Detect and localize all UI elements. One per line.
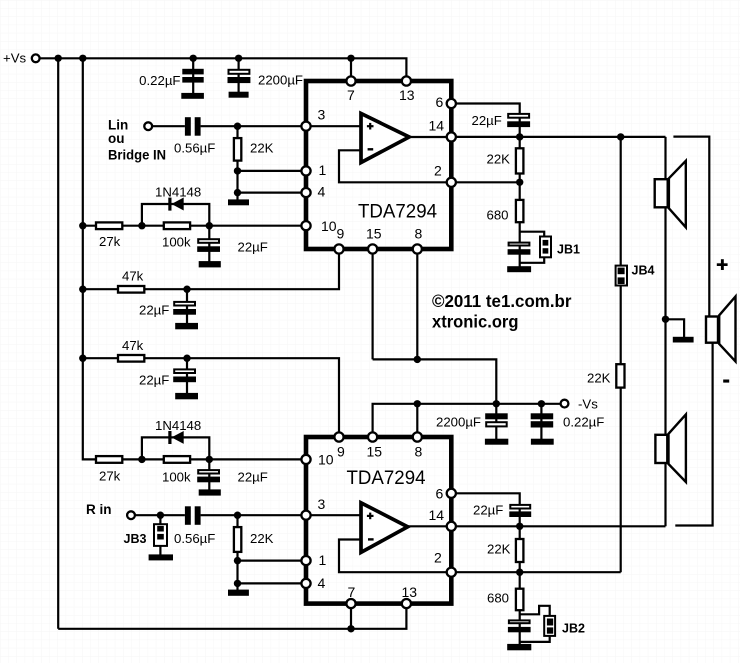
pin 10 U1 (301, 221, 310, 230)
terminal R in (127, 511, 135, 519)
node A speaker gnd (662, 316, 669, 323)
resistor R8 22K right rail (616, 364, 624, 387)
pin 13 U1 (402, 76, 411, 85)
svg-text:13: 13 (399, 87, 415, 103)
resistor R3 100k (164, 222, 190, 229)
wire bottom pin 14 output row (451, 525, 665, 527)
node C1 top (190, 55, 197, 62)
node pin14/right rail (617, 133, 624, 140)
capacitor C8 (508, 243, 531, 255)
ground under C2 (229, 92, 249, 98)
svg-text:22µF: 22µF (139, 373, 169, 388)
wire U1 feedback to pin 2 (339, 150, 451, 182)
svg-text:0.56µF: 0.56µF (174, 531, 215, 546)
svg-text:100k: 100k (162, 235, 191, 250)
svg-text:xtronic.org: xtronic.org (432, 312, 519, 332)
svg-text:3: 3 (318, 496, 326, 512)
ground at node A (673, 337, 694, 343)
capacitor C3 0.56uF (185, 117, 201, 136)
svg-text:14: 14 (429, 507, 445, 523)
wire JB2 bottom branch (520, 636, 550, 642)
ground under C5 (175, 323, 198, 329)
IC U2 TDA7294 box (306, 437, 451, 604)
ground under JB3 (149, 554, 173, 560)
svg-text:2200µF: 2200µF (436, 415, 481, 430)
wire node to bottom pin 1 (238, 559, 307, 561)
wire pin 3 to op-amp U1 (306, 125, 361, 127)
svg-text:22K: 22K (250, 141, 274, 156)
svg-text:0.22µF: 0.22µF (563, 415, 604, 430)
node railB 47k1 (79, 286, 86, 293)
wire stem of C10 (540, 404, 542, 442)
svg-text:1N4148: 1N4148 (155, 418, 201, 433)
resistor R5 47k (118, 355, 144, 362)
svg-text:680: 680 (487, 591, 509, 606)
speaker LS1 (655, 161, 686, 228)
resistor R7b 680 bottom (516, 589, 524, 611)
node 47k1/C5 (183, 286, 190, 293)
node 100k/C4 (206, 222, 213, 229)
wire 27k row to pin 10 (83, 225, 306, 227)
wire bridge hop upper segment to LS2 (673, 137, 709, 316)
wire bottom diode D2 branch (142, 437, 209, 459)
pin 3 U1 (301, 122, 310, 131)
wire U1 output to pin 14 (409, 136, 451, 138)
pin 1 U2 (301, 556, 310, 565)
svg-text:9: 9 (337, 444, 345, 460)
terminal +Vs (32, 54, 40, 62)
resistor R6 22K (516, 148, 524, 173)
node +Vs rail B (79, 55, 86, 62)
svg-text:22µF: 22µF (139, 303, 169, 318)
svg-text:2: 2 (434, 550, 442, 566)
wire U2 feedback to pin 2 (339, 540, 451, 573)
node input/R1 (234, 123, 241, 130)
svg-text:22µF: 22µF (472, 113, 502, 128)
wire stem of C4 (208, 226, 210, 264)
wire stem of C2 (238, 58, 240, 95)
ground under C6 (175, 393, 198, 399)
node input/R1b (234, 512, 241, 519)
IC U1 TDA7294 box (306, 81, 451, 249)
wire pin 6 to C7 (451, 104, 519, 138)
svg-text:4: 4 (318, 184, 326, 200)
node pin7 drop (347, 55, 354, 62)
svg-text:6: 6 (436, 94, 444, 110)
ground under C1 (181, 93, 204, 99)
svg-text:27k: 27k (99, 469, 121, 484)
capacitor C8b (508, 620, 531, 632)
U1 pin circles (301, 76, 456, 608)
resistor R6b 22K bottom (516, 539, 524, 562)
svg-text:R in: R in (86, 502, 112, 517)
svg-text:1N4148: 1N4148 (155, 185, 201, 200)
wire R input to C3b (135, 514, 185, 516)
wire bottom pin 8 stub to -Vs row (416, 404, 418, 437)
capacitor C3b 0.56uF (185, 506, 201, 525)
wire node to pin 1 (238, 170, 307, 172)
pin 13 U2 (402, 599, 411, 608)
svg-text:JB1: JB1 (557, 243, 580, 257)
svg-text:3: 3 (318, 107, 326, 123)
node pin4b gnd (234, 580, 241, 587)
pin 8 U1 (413, 244, 422, 253)
svg-text:4: 4 (318, 575, 326, 591)
jumper JB1 (540, 237, 551, 258)
speaker LS2 plus sign (717, 259, 728, 270)
svg-text:8: 8 (415, 444, 423, 460)
wire JB3 stem (159, 515, 161, 556)
pin 6 U1 (447, 99, 456, 108)
pin 2 U1 (447, 178, 456, 187)
wire JB1 top branch (520, 232, 545, 237)
pin 15 U2 (368, 432, 377, 441)
svg-text:7: 7 (347, 87, 355, 103)
svg-text:15: 15 (366, 226, 382, 242)
node bottom rail pin7 (347, 625, 354, 632)
wire C3b to bottom pin 3 (201, 514, 306, 516)
pin 8 U2 (413, 432, 422, 441)
svg-text:-Vs: -Vs (578, 397, 598, 412)
svg-text:2200µF: 2200µF (258, 73, 303, 88)
speaker LS2 minus sign (723, 380, 729, 383)
svg-text:Bridge IN: Bridge IN (108, 148, 166, 163)
ground under C4 (199, 261, 221, 267)
wire node A ground stub (666, 319, 685, 337)
terminal L in (144, 122, 152, 130)
speaker LS3 (655, 414, 686, 482)
svg-text:2: 2 (434, 163, 442, 179)
op-amp U2 (361, 503, 408, 553)
capacitor C10 0.22uF (531, 413, 554, 427)
wire top pin 15 down to -Vs (372, 249, 374, 359)
node pin14/C7 (516, 133, 523, 140)
pin 1 U1 (301, 166, 310, 175)
wire node to bottom pin 4 (238, 582, 307, 584)
capacitor C9 2200uF (485, 413, 508, 426)
pin 7 U1 (346, 76, 355, 85)
svg-text:10: 10 (318, 452, 334, 468)
svg-text:1: 1 (319, 552, 327, 568)
resistor R1b 22K bottom (234, 527, 241, 552)
jumper JB3 (154, 524, 167, 546)
svg-text:0.22µF: 0.22µF (139, 73, 180, 88)
pin 10 U2 (301, 455, 310, 464)
ground under C8 (507, 266, 531, 272)
resistor R1 22K (234, 138, 241, 161)
wire left rail B with corner to bottom 27k row (83, 58, 306, 459)
node pin8 -Vs upper (414, 356, 421, 363)
wire pin 14 output row (451, 136, 665, 138)
wire pin 2 row to 22K/680 node (451, 181, 519, 183)
svg-text:+Vs: +Vs (3, 51, 26, 66)
jumper JB2 (544, 616, 555, 636)
pin 15 U1 (368, 244, 377, 253)
wire 22K R1 chain down to ground (236, 126, 238, 201)
svg-text:TDA7294: TDA7294 (347, 468, 426, 489)
capacitor C4b 22uF (197, 470, 220, 482)
svg-text:ou: ou (108, 131, 125, 146)
pin 6 U2 (447, 489, 456, 498)
svg-text:22K: 22K (487, 542, 511, 557)
wire bottom pin 2 row to right rail (451, 571, 620, 573)
node 100kb/C4b (206, 456, 213, 463)
wire LS2 bottom segment (675, 344, 712, 526)
svg-text:47k: 47k (122, 338, 144, 353)
capacitor C5 22uF (173, 302, 196, 315)
svg-text:6: 6 (436, 486, 444, 502)
resistor R4 47k (118, 286, 144, 293)
node 27k/100k (138, 222, 145, 229)
pin 3 U2 (301, 511, 310, 520)
svg-text:JB2: JB2 (562, 622, 585, 636)
svg-text:1: 1 (319, 162, 327, 178)
node JB3 (157, 512, 164, 519)
wire bottom 22K chain to ground (236, 515, 238, 591)
wire stem of C1 (192, 58, 194, 95)
svg-text:100k: 100k (162, 470, 191, 485)
ground under R1b chain (228, 590, 249, 596)
wire 47k row 1 to pin 9 (83, 249, 339, 289)
jumper JB4 (616, 266, 627, 286)
node pin4 gnd (234, 189, 241, 196)
wire stem of bottom C4b (208, 459, 210, 492)
wire +Vs top rail to pin 13 (40, 58, 407, 81)
wire node to pin 4 (238, 192, 307, 194)
wire -Vs row to terminal (373, 404, 561, 437)
ground under C8b (507, 644, 531, 650)
wire bottom IC pin 7 stub (350, 604, 352, 629)
diode D2 1N4148 (168, 431, 183, 444)
ground under C10 (531, 439, 554, 445)
svg-text:22K: 22K (487, 152, 511, 167)
pin 14 U2 (447, 522, 456, 531)
pin 9 U2 (334, 432, 343, 441)
svg-text:7: 7 (348, 584, 356, 600)
node pin8b -Vs row (414, 400, 421, 407)
capacitor C2 2200uF (228, 70, 251, 83)
capacitor C7b 22uF (509, 505, 531, 517)
wire 22K/680 column to C8 ground (519, 137, 521, 268)
node +Vs rail A (55, 55, 62, 62)
ground under C4b (199, 489, 221, 495)
wire JB1 bottom branch (520, 258, 545, 263)
node pin2b/680b (516, 569, 523, 576)
node C10 -Vs row (538, 400, 545, 407)
speaker LS2 (bridge) (706, 297, 736, 362)
node C2 top (235, 55, 242, 62)
wire stem of C6 (186, 358, 188, 396)
wire right rail through JB4 and 22K R8 (620, 137, 622, 572)
terminal -Vs (561, 400, 569, 408)
wire bottom 22K/680 column (519, 526, 521, 646)
svg-text:0.56µF: 0.56µF (174, 141, 215, 156)
node pin14b/C7b (516, 523, 523, 530)
svg-text:27k: 27k (99, 234, 121, 249)
svg-text:10: 10 (321, 218, 337, 234)
wire left rail A down to bottom (57, 58, 59, 629)
ground under C9 (485, 439, 508, 445)
diode D1 1N4148 (168, 198, 183, 211)
pin 4 U1 (301, 188, 310, 197)
node railB 27k (79, 222, 86, 229)
svg-text:13: 13 (402, 584, 418, 600)
wire diode D1 branch (142, 204, 209, 226)
svg-text:15: 15 (367, 444, 383, 460)
wire U2 output to pin 14 (408, 525, 452, 527)
svg-text:9: 9 (337, 226, 345, 242)
node 47k2/C6 (183, 355, 190, 362)
node R1b bottom pin1 (234, 557, 241, 564)
node pin2/680 (516, 179, 523, 186)
svg-text:22µF: 22µF (473, 503, 503, 518)
resistor R3b 100k bottom (164, 456, 190, 463)
wire pin 7 drop from +Vs rail (350, 58, 352, 81)
wire stem of C9 (495, 404, 497, 442)
svg-text:TDA7294: TDA7294 (358, 202, 437, 223)
op-amp U1 (361, 114, 409, 163)
svg-text:JB3: JB3 (124, 532, 147, 546)
wire pin 3 to op-amp U2 (306, 514, 361, 516)
wire stem of C5 (186, 289, 188, 326)
resistor R2 27k (96, 222, 122, 229)
svg-text:47k: 47k (122, 269, 144, 284)
wire 47k row 2 to bottom pin 9 (83, 358, 339, 437)
wire top pin 8 down to -Vs (416, 249, 418, 359)
svg-text:JB4: JB4 (632, 264, 655, 278)
wire L input to C3 (152, 125, 185, 127)
svg-text:22K: 22K (587, 371, 611, 386)
resistor R2b 27k bottom (96, 456, 122, 463)
capacitor C1 0.22uF (182, 69, 203, 83)
wire -Vs upper row with corner down (373, 359, 497, 403)
capacitor C7 22uF (507, 114, 530, 127)
ground under R1 chain (228, 199, 249, 205)
svg-text:22K: 22K (250, 531, 274, 546)
pin 4 U2 (301, 579, 310, 588)
pin 2 U2 (447, 568, 456, 577)
node railB 47k2 (79, 355, 86, 362)
svg-text:22µF: 22µF (238, 470, 268, 485)
node R1 bottom pin1 (234, 167, 241, 174)
capacitor C4 22uF (197, 239, 220, 252)
pin 9 U1 (334, 244, 343, 253)
resistor R7 680 (516, 200, 524, 222)
node C9 -Vs row (493, 400, 500, 407)
pin 7 U2 (346, 599, 355, 608)
wire bottom +Vs rail to bottom IC pin 13 (58, 604, 406, 629)
svg-text:680: 680 (487, 208, 509, 223)
svg-text:22µF: 22µF (238, 240, 268, 255)
pin 14 U1 (447, 132, 456, 141)
node 27kb/100kb (138, 456, 145, 463)
svg-text:8: 8 (415, 226, 423, 242)
wire speaker LS1 column down to node A (664, 137, 666, 526)
wire C3 to pin 3 (201, 125, 306, 127)
wire JB2 top branch (520, 606, 550, 618)
wire bottom pin 6 to C7b (451, 493, 519, 526)
capacitor C6 22uF (173, 369, 196, 382)
svg-text:©2011 te1.com.br: ©2011 te1.com.br (432, 291, 572, 311)
svg-text:14: 14 (429, 118, 445, 134)
